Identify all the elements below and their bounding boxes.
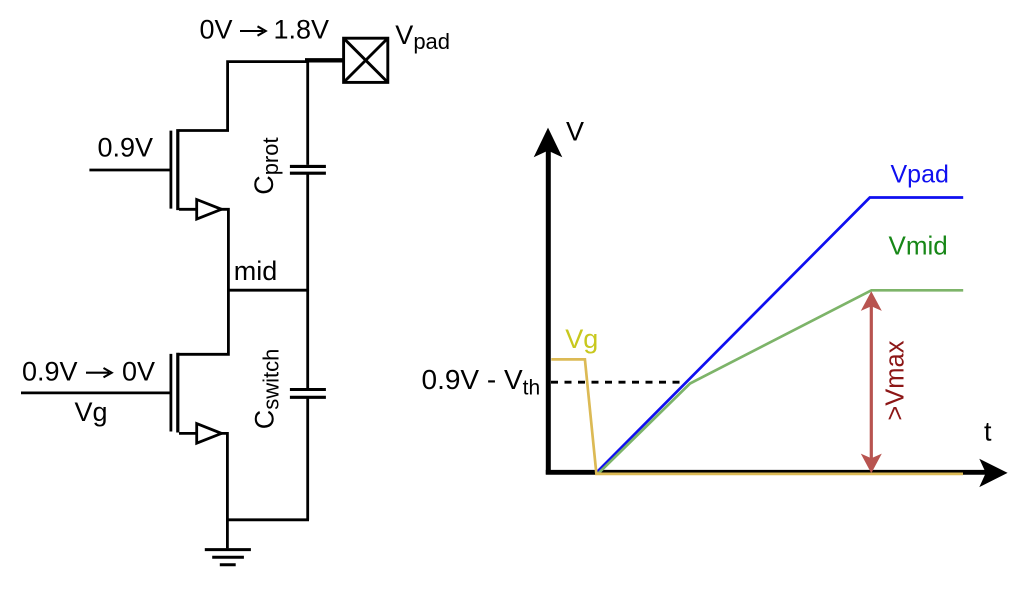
ground — [226, 520, 229, 548]
arrow >Vmax (double-headed) — [870, 305, 873, 460]
transistor M1 source arrow — [197, 200, 222, 220]
svg-text:Vpad: Vpad — [891, 161, 949, 189]
t axis — [546, 470, 987, 475]
transistor M2 channel bar — [176, 353, 179, 433]
wire: top rail junction down to Cprot top plate — [306, 62, 309, 165]
capacitor C_switch — [290, 388, 326, 391]
svg-text:0.9V: 0.9V — [22, 356, 78, 386]
curve Vmid (green) — [598, 290, 963, 474]
svg-text:1.8V: 1.8V — [274, 15, 330, 45]
transistor M2 gate wire — [21, 391, 170, 394]
svg-text:>Vmax: >Vmax — [882, 340, 910, 420]
wire: M1 source to mid rail — [221, 209, 229, 290]
transistor M2 source arrow — [197, 424, 222, 444]
svg-text:0V: 0V — [200, 15, 233, 45]
curve Vg (yellow) — [551, 359, 963, 474]
svg-text:Vg: Vg — [565, 324, 598, 354]
wire: Cswitch branch from mid rail down to top plate — [306, 290, 309, 388]
svg-text:Vmid: Vmid — [889, 230, 948, 260]
wire: bottom rail — [226, 518, 309, 521]
V axis — [546, 144, 551, 474]
svg-text:Vg: Vg — [75, 397, 108, 427]
transistor M1 gate bar — [169, 131, 172, 209]
svg-text:t: t — [984, 416, 992, 446]
pad symbol (box with X) — [344, 38, 388, 82]
transistor M1 channel bar — [176, 129, 179, 210]
wire: top FET drain to top rail to pad junction — [179, 62, 308, 131]
svg-text:0.9V - Vth: 0.9V - Vth — [422, 364, 541, 399]
svg-text:mid: mid — [234, 256, 278, 286]
wire: mid rail — [227, 289, 309, 292]
dashed threshold line — [551, 381, 681, 384]
wire: Cswitch bottom plate to bottom rail — [306, 399, 309, 520]
transistor M1 gate wire — [89, 169, 169, 172]
svg-text:V: V — [566, 117, 584, 147]
wire: mid rail down to M2 drain — [179, 289, 229, 354]
transistor M1 source wire — [179, 208, 197, 211]
svg-text:0.9V: 0.9V — [98, 133, 154, 163]
wire: M2 source down to bottom rail — [221, 433, 228, 520]
curve Vpad (blue) — [596, 198, 964, 474]
transistor M2 source wire — [179, 432, 197, 435]
capacitor C_prot — [290, 165, 326, 168]
wire: Cprot bottom plate down to mid rail — [306, 175, 309, 291]
svg-text:0V: 0V — [122, 356, 155, 386]
wire: thick stub from junction to pad — [305, 58, 344, 62]
transistor M2 gate bar — [169, 354, 172, 432]
